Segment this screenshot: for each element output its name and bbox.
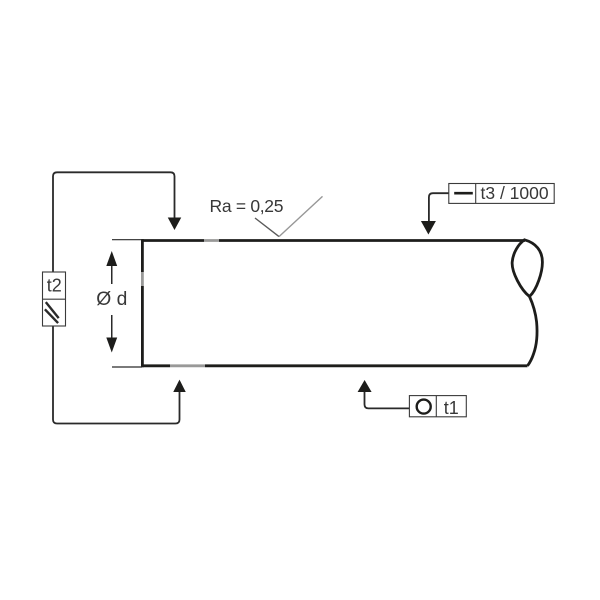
shaft bottom edge [141, 364, 528, 367]
t2 leader top arrowhead [168, 218, 182, 231]
dimension line lower segment [111, 315, 113, 338]
frame t1 divider [435, 396, 437, 417]
surface roughness symbol left leg [255, 218, 279, 237]
svg-text:t2: t2 [47, 276, 62, 296]
t2 leader bottom arrowhead [173, 380, 186, 392]
frame t2 parallelism symbol [46, 302, 59, 318]
t2 leader top run [53, 172, 175, 272]
watermark patch on top edge [204, 235, 219, 245]
circularity symbol [417, 400, 431, 414]
watermark patch on left edge [138, 272, 147, 286]
shaft top edge [141, 239, 525, 242]
svg-text:Ø d: Ø d [96, 289, 127, 310]
shaft left edge [141, 239, 144, 367]
frame t3 divider [475, 184, 477, 204]
break line tail [528, 297, 538, 366]
dimension line upper segment [111, 266, 113, 285]
t1 leader arrowhead [358, 380, 372, 392]
break line loop [512, 240, 542, 297]
t2 leader bottom run [53, 326, 180, 424]
extension line top [112, 239, 142, 241]
frame t3 box [449, 184, 554, 204]
straightness symbol [454, 192, 473, 195]
svg-text:t3 / 1000: t3 / 1000 [481, 183, 549, 203]
extension line bottom [112, 366, 142, 368]
dimension arrow down [106, 338, 117, 353]
frame t1 box [409, 396, 466, 417]
surface roughness symbol right leg [279, 196, 323, 236]
frame t2 box [43, 272, 66, 326]
svg-text:t1: t1 [444, 398, 459, 418]
dimension arrow up [106, 251, 117, 266]
t1 leader run [365, 392, 410, 408]
watermark patch on bottom edge [170, 361, 205, 371]
t3 leader run [429, 193, 449, 221]
frame t2 divider [43, 298, 66, 300]
svg-text:Ra = 0,25: Ra = 0,25 [210, 196, 284, 216]
t3 leader arrowhead [421, 221, 436, 235]
